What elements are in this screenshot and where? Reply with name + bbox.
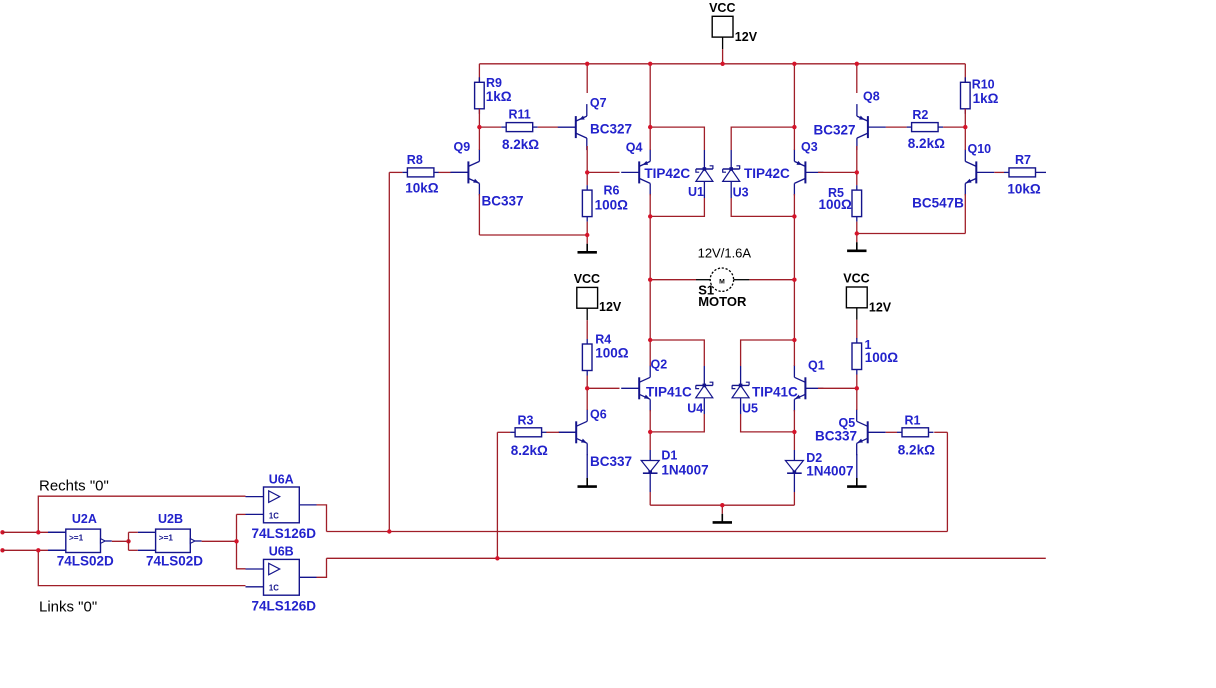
wire R8 to Q9 base [439, 171, 452, 173]
wire Q2 collector up [649, 340, 651, 366]
transistor Q2 [621, 365, 650, 411]
motor S1 MOTOR [696, 268, 749, 291]
svg-text:BC327: BC327 [814, 122, 856, 137]
wire node to Q2 base [587, 387, 619, 389]
svg-text:1C: 1C [269, 584, 279, 593]
transistor Q9 [450, 149, 479, 195]
wire R1 right to corner [934, 431, 947, 433]
wire fan vertical [128, 532, 130, 550]
node input Links terminal [0, 548, 4, 552]
wire Q4 collector down [649, 194, 651, 216]
wire Q9 collector to node [478, 127, 480, 150]
svg-text:BC337: BC337 [590, 454, 632, 469]
junction Q8 R5 Q3 [855, 170, 859, 174]
svg-text:12V/1.6A: 12V/1.6A [698, 246, 752, 261]
junction Links tap [36, 548, 40, 552]
junction R4 Q2 Q6 [585, 386, 589, 390]
junction loop1 TL [648, 125, 652, 129]
wire Q1 base [818, 387, 857, 389]
power VCC mid-right 12V [843, 272, 892, 339]
wire Q1 emitter down [793, 410, 795, 432]
svg-text:U2B: U2B [158, 512, 183, 526]
svg-text:BC327: BC327 [590, 122, 632, 137]
wire node to D1 [649, 432, 651, 450]
svg-text:Links "0": Links "0" [39, 599, 97, 616]
junction R9 R11 Q9 [477, 125, 481, 129]
svg-text:R1: R1 [905, 414, 921, 428]
wire U6B out long [327, 557, 1046, 559]
wire node to R11 [479, 126, 501, 128]
resistor R2 [907, 123, 944, 132]
svg-text:TIP42C: TIP42C [744, 166, 790, 181]
svg-text:MOTOR: MOTOR [698, 294, 747, 309]
junction motor left [648, 278, 652, 282]
wire emitter bottom left [479, 234, 587, 236]
resistor R7 [1004, 168, 1041, 177]
svg-text:R10: R10 [972, 77, 995, 91]
wire Q3 emitter up [793, 127, 795, 150]
junction bus right rail [792, 62, 796, 66]
svg-text:Q3: Q3 [801, 140, 818, 154]
svg-text:8.2kΩ: 8.2kΩ [898, 443, 935, 458]
wire bus drop to R9 [478, 64, 480, 83]
svg-text:Q9: Q9 [454, 140, 471, 154]
svg-text:Q4: Q4 [626, 140, 643, 154]
wire U4 loop top [650, 340, 704, 366]
wire motor right [749, 279, 794, 281]
resistor R11 [501, 123, 538, 132]
svg-text:U6B: U6B [269, 545, 294, 559]
wire res1 to node [856, 375, 858, 389]
svg-text:TIP42C: TIP42C [644, 166, 690, 181]
svg-text:8.2kΩ: 8.2kΩ [502, 137, 539, 152]
transistor Q7 [558, 104, 587, 150]
wire Q9 emitter down [478, 194, 480, 235]
wire Rechts riser [38, 496, 245, 532]
wire R4 to node [586, 376, 588, 389]
wire U6A out long [327, 531, 948, 533]
wire enable to U6A [237, 513, 246, 515]
svg-text:U5: U5 [742, 402, 758, 416]
wire R3 net vertical [496, 432, 498, 558]
wire U3 loop top [731, 127, 794, 150]
wire U4 loop bottom [650, 414, 704, 432]
wire U3 loop bottom [731, 198, 794, 216]
svg-text:R7: R7 [1015, 153, 1031, 167]
wire node to R5 [856, 172, 858, 185]
svg-text:Q7: Q7 [590, 96, 607, 110]
wire Q3 collector down [793, 194, 795, 216]
wire U1 loop top [650, 127, 704, 150]
gate U6B 74LS126D [246, 559, 317, 595]
wire Q5 collector up [856, 388, 858, 410]
wire fan to U2B input A [129, 531, 138, 533]
svg-text:74LS02D: 74LS02D [146, 553, 203, 568]
svg-text:Rechts "0": Rechts "0" [39, 478, 109, 495]
svg-text:100Ω: 100Ω [819, 197, 853, 212]
svg-text:D1: D1 [661, 449, 677, 463]
resistor R9 [475, 77, 485, 114]
wire R6 to gnd node [586, 222, 588, 235]
wire Q2 emitter down [649, 410, 651, 432]
gate U2A 74LS02D [48, 529, 112, 552]
junction enable net [234, 539, 238, 543]
junction loop4 BR [792, 430, 796, 434]
wire Q7 collector to node [586, 146, 588, 172]
svg-text:100Ω: 100Ω [595, 345, 629, 360]
wire bottom gnd rail [650, 504, 794, 506]
transistor Q3 [794, 149, 823, 195]
ground below Q5 [847, 454, 866, 487]
svg-text:74LS126D: 74LS126D [252, 526, 317, 541]
ground center [713, 505, 732, 522]
resistor R3 [510, 428, 546, 437]
wire U1 loop bottom [650, 198, 704, 216]
svg-text:1kΩ: 1kΩ [486, 89, 512, 104]
svg-text:74LS126D: 74LS126D [252, 598, 317, 613]
junction loop3 TL [648, 338, 652, 342]
resistor R4 [582, 339, 592, 376]
junction motor right [792, 278, 796, 282]
wire bus drop to R10 [964, 64, 966, 83]
junction Q7 R6 Q4 [585, 170, 589, 174]
junction bus left rail [648, 62, 652, 66]
svg-text:Q5: Q5 [839, 416, 856, 430]
svg-text:VCC: VCC [709, 1, 735, 15]
svg-text:VCC: VCC [843, 272, 869, 286]
power VCC top 12V [709, 1, 758, 64]
wire motor left [650, 279, 696, 281]
wire U5 loop top [741, 340, 795, 366]
resistor R1 [897, 428, 934, 437]
svg-text:8.2kΩ: 8.2kΩ [908, 136, 945, 151]
svg-text:10kΩ: 10kΩ [1007, 182, 1041, 197]
svg-text:1kΩ: 1kΩ [973, 91, 999, 106]
diode U3 [723, 166, 740, 182]
diode U4 [696, 382, 713, 398]
svg-text:R8: R8 [407, 153, 423, 167]
svg-text:12V: 12V [599, 300, 622, 314]
wire Q8 collector to node [856, 146, 858, 172]
wire right rail lower [793, 280, 795, 340]
wire left rail lower [649, 280, 651, 340]
svg-text:>=1: >=1 [69, 534, 84, 543]
wire Q10 emitter down [964, 194, 966, 234]
resistor 1 (100 ohm) [852, 338, 862, 375]
junction loop2 TR [792, 125, 796, 129]
diode D1 [641, 461, 659, 475]
wire R11 to Q7 base [538, 126, 560, 128]
junction R6 gnd [585, 233, 589, 237]
wire Q4 emitter up [649, 127, 651, 150]
svg-text:Q6: Q6 [590, 408, 607, 422]
wire Q3 base [818, 171, 857, 173]
wire bus drop to Q7 emitter [586, 64, 588, 93]
transistor Q6 [558, 409, 587, 455]
svg-text:U3: U3 [733, 185, 749, 199]
svg-text:R4: R4 [595, 332, 611, 346]
junction bus VCC [720, 62, 724, 66]
resistor R8 [402, 168, 439, 177]
junction loop2 BR [792, 214, 796, 218]
wire R3 to Q6 base [546, 431, 559, 433]
svg-text:M: M [719, 279, 725, 286]
junction R8 net [387, 529, 391, 533]
wire R8 left to corner [389, 171, 402, 173]
wire node to D2 [793, 432, 795, 450]
svg-text:10kΩ: 10kΩ [405, 181, 439, 196]
gate U6A 74LS126D [246, 487, 317, 523]
wire bus drop to Q8 emitter [856, 64, 858, 93]
node input Rechts terminal [0, 530, 4, 534]
wire D2 to gnd rail [793, 492, 795, 505]
svg-text:R11: R11 [509, 108, 531, 122]
svg-text:>=1: >=1 [159, 534, 174, 543]
svg-text:U6A: U6A [269, 473, 294, 487]
junction res1 Q1 Q5 [855, 386, 859, 390]
svg-text:R9: R9 [486, 76, 502, 90]
junction loop3 BL [648, 430, 652, 434]
wire R1 net vertical [946, 432, 948, 531]
svg-text:1N4007: 1N4007 [806, 464, 853, 479]
svg-text:100Ω: 100Ω [595, 198, 629, 213]
diode D2 [785, 461, 803, 475]
wire enable chain [237, 514, 246, 568]
resistor R10 [961, 77, 971, 114]
wire Q8 base to R2 [886, 126, 907, 128]
wire Q5 base to R1 [886, 431, 897, 433]
wire right rail upper [793, 216, 795, 279]
wire U2A out to fan node [112, 540, 129, 542]
wire fan to U2B input B [129, 549, 138, 551]
svg-text:12V: 12V [869, 301, 892, 315]
wire node to Q10 collector [964, 127, 966, 150]
svg-text:1N4007: 1N4007 [661, 462, 708, 477]
transistor Q1 [794, 365, 823, 411]
svg-text:U1: U1 [688, 185, 704, 199]
svg-text:U4: U4 [687, 402, 703, 416]
junction gnd rail [720, 503, 724, 507]
diode U5 [732, 382, 749, 398]
svg-text:TIP41C: TIP41C [646, 385, 692, 400]
svg-text:8.2kΩ: 8.2kΩ [511, 443, 548, 458]
wire Q10 base to R7 [994, 171, 1004, 173]
wire U6A out jog [317, 505, 327, 532]
resistor R6 [582, 185, 592, 222]
svg-text:Q8: Q8 [863, 90, 880, 104]
svg-text:R2: R2 [912, 108, 928, 122]
svg-text:Q2: Q2 [651, 358, 668, 372]
wire Q1 collector up [793, 340, 795, 366]
resistor R5 [852, 185, 862, 222]
svg-text:R6: R6 [604, 184, 620, 198]
svg-text:BC547B: BC547B [912, 195, 964, 210]
wire bus drop to Q3 loop [793, 64, 795, 127]
junction R5 gnd [855, 231, 859, 235]
wire R9 to node [478, 109, 480, 127]
junction loop4 TR [792, 338, 796, 342]
svg-text:Q1: Q1 [808, 359, 825, 373]
svg-text:U2A: U2A [72, 512, 97, 526]
junction bus Q8 [855, 62, 859, 66]
svg-text:100Ω: 100Ω [865, 350, 899, 365]
diode U1 [696, 166, 713, 182]
ground below R5 [847, 234, 866, 251]
wire R8 net vertical [388, 172, 390, 531]
svg-text:BC337: BC337 [482, 194, 524, 209]
svg-text:R3: R3 [518, 414, 534, 428]
wire R2 to node [943, 126, 965, 128]
svg-text:1C: 1C [269, 511, 279, 520]
wire bottom right rail [857, 233, 966, 235]
svg-text:TIP41C: TIP41C [752, 385, 798, 400]
wire top VCC bus [479, 63, 965, 65]
wire Links dropper [38, 550, 245, 585]
ground below R6 [578, 235, 597, 252]
wire U6B out jog [317, 558, 327, 577]
transistor Q4 [621, 149, 650, 195]
wire bus drop to Q4 loop [649, 64, 651, 127]
transistor Q8 [857, 104, 886, 150]
junction Rechts tap [36, 530, 40, 534]
wire D1 to gnd rail [649, 492, 651, 505]
junction loop1 BL [648, 214, 652, 218]
wire Rechts input [3, 531, 49, 533]
svg-text:12V: 12V [735, 30, 758, 44]
ground below Q6 [578, 454, 597, 487]
junction U2A fan [126, 539, 130, 543]
wire R10 to node [964, 109, 966, 127]
gate U2B 74LS02D [138, 529, 202, 552]
junction R3 net [495, 556, 499, 560]
wire Q6 collector up [586, 388, 588, 410]
junction R2 R10 Q10 [963, 125, 967, 129]
wire U2B out [202, 540, 237, 542]
junction bus Q7 [585, 62, 589, 66]
svg-text:BC337: BC337 [815, 429, 857, 444]
power VCC mid-left 12V [574, 272, 622, 339]
wire Links input [3, 549, 49, 551]
wire R5 to gnd node [856, 222, 858, 234]
transistor Q10 [965, 149, 994, 195]
wire R3 left to corner [497, 431, 510, 433]
wire left rail upper [649, 216, 651, 279]
wire Q4 base [587, 171, 619, 173]
svg-text:74LS02D: 74LS02D [57, 553, 114, 568]
svg-text:VCC: VCC [574, 272, 600, 286]
transistor Q5 [857, 409, 886, 455]
wire U5 loop bottom [741, 414, 795, 432]
svg-text:Q10: Q10 [968, 142, 992, 156]
wire node to R6 [586, 172, 588, 185]
